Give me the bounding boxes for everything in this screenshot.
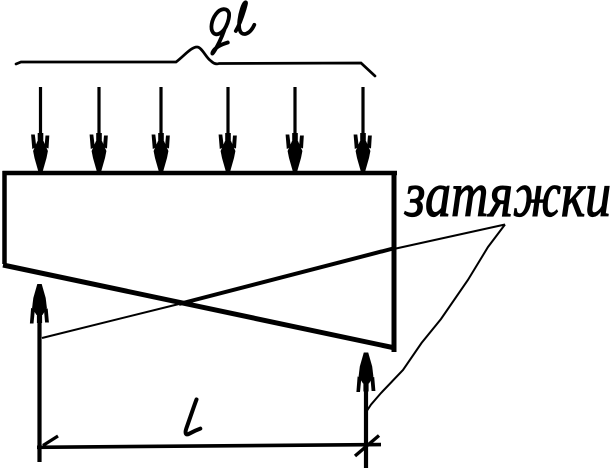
leader line 2	[366, 225, 506, 414]
right dimension tick	[355, 436, 379, 457]
dimension line	[37, 445, 381, 448]
tie rod A (thick diagonal, bottom edge)	[3, 265, 395, 348]
distributed load arrow 1	[31, 87, 49, 171]
distributed load arrow 4	[219, 87, 237, 171]
tie rod B thin part	[42, 304, 179, 338]
distributed load arrow 2	[90, 87, 108, 171]
left reaction arrow	[30, 284, 49, 462]
load label l (script ell)	[236, 2, 255, 34]
span label l (script ell)	[186, 400, 201, 435]
tie rod B thick part	[179, 248, 395, 304]
extent line with break symbol	[16, 47, 375, 76]
load label q	[211, 9, 229, 53]
beam top edge	[3, 171, 398, 176]
beam left edge	[2, 171, 7, 264]
left dimension tick	[43, 436, 58, 446]
distributed load arrow 6	[354, 87, 372, 171]
leader line 1	[396, 225, 505, 249]
distributed load arrow 5	[286, 87, 304, 171]
distributed load arrow 3	[152, 87, 170, 171]
beam right edge	[392, 171, 397, 352]
svg-text:затяжки: затяжки	[404, 159, 611, 230]
right reaction arrow	[356, 353, 375, 468]
